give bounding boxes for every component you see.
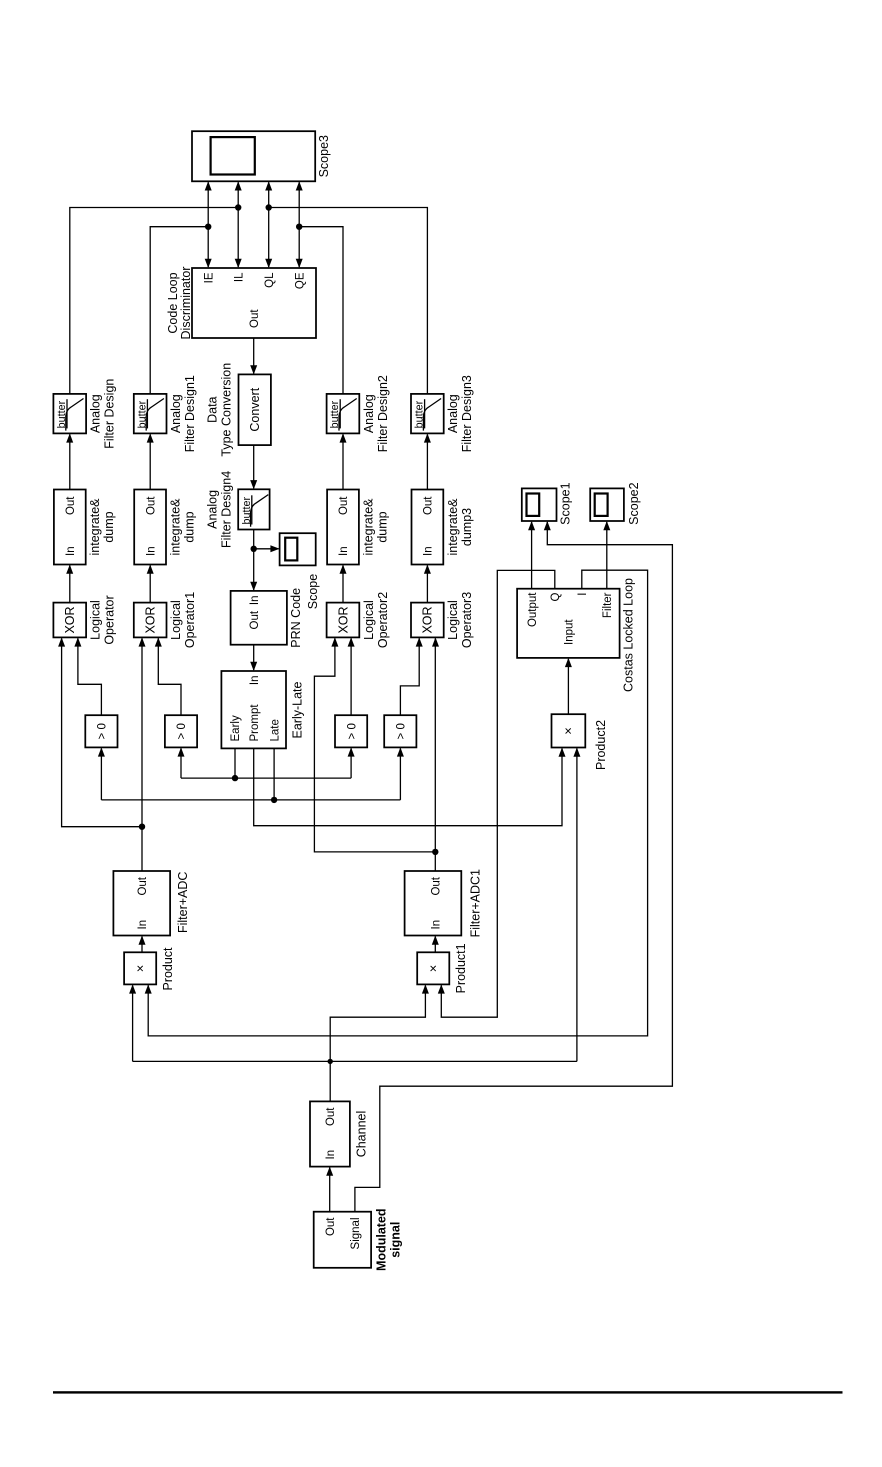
junction dot Filter+ADC net (139, 824, 145, 830)
svg-text:Data: Data (206, 396, 220, 422)
svg-text:> 0: > 0 (97, 723, 109, 739)
block Costas Locked Loop (517, 589, 620, 658)
svg-text:integrate&: integrate& (88, 498, 102, 556)
junction dot on QL line (266, 204, 272, 210)
svg-text:dump3: dump3 (460, 508, 474, 546)
wire Early net trunk (181, 777, 351, 779)
svg-text:Input: Input (564, 619, 576, 645)
block Product2 (x) (552, 714, 586, 747)
wire Filter+ADC net branch -> XOR A input 1 (62, 638, 142, 826)
svg-text:XOR: XOR (421, 606, 435, 633)
block Product1 (x) (417, 952, 449, 984)
svg-text:Late: Late (269, 719, 281, 741)
wire integrate&dump A Out -> butter In (69, 434, 71, 489)
wire XOR C out -> integrate&dump In (342, 566, 344, 603)
svg-text:Out: Out (249, 610, 261, 629)
svg-text:In: In (249, 596, 261, 606)
svg-text:Channel: Channel (355, 1111, 369, 1158)
svg-text:Filter Design3: Filter Design3 (460, 375, 474, 452)
block integrate&dump C (327, 490, 359, 565)
wire >0 A out -> XOR A input 2 (78, 638, 102, 715)
block Filter+ADC1 (405, 871, 462, 936)
wire IE net: discriminator input and Scope3 input (207, 182, 209, 267)
junction dot on IL line (235, 204, 241, 210)
svg-text:Operator2: Operator2 (376, 592, 390, 648)
svg-text:×: × (132, 965, 147, 973)
block Analog Filter Design2 (butter) (327, 394, 360, 434)
wire PRN Code Out -> Early-Late In (253, 645, 255, 670)
block Analog Filter Design4 (butter) (238, 489, 269, 529)
svg-text:Analog: Analog (362, 394, 376, 433)
wire Costas Q -> Product1 input 2 (441, 570, 555, 1017)
wire Channel net branch trunk (133, 1060, 577, 1062)
wire Late net trunk (101, 799, 400, 801)
wire XOR A out -> integrate&dump In (69, 566, 71, 603)
block Analog Filter Design1 (butter) (134, 394, 167, 434)
svg-text:Scope1: Scope1 (559, 482, 573, 524)
svg-text:Filter+ADC: Filter+ADC (176, 872, 190, 933)
junction dot Filter+ADC1 net (432, 849, 438, 855)
svg-text:XOR: XOR (336, 606, 350, 633)
svg-text:IE: IE (203, 272, 215, 283)
svg-text:Signal: Signal (350, 1218, 362, 1250)
block Code Loop Discriminator (192, 268, 316, 338)
footer rule (53, 1391, 843, 1393)
svg-text:Out: Out (423, 496, 435, 515)
svg-text:dump: dump (102, 511, 116, 542)
svg-text:Product: Product (161, 947, 175, 991)
block integrate&dump A (54, 490, 86, 565)
svg-text:integrate&: integrate& (169, 498, 183, 556)
svg-text:XOR: XOR (144, 606, 158, 633)
svg-text:In: In (431, 920, 443, 930)
block compare >0 (C) (335, 715, 367, 747)
svg-text:Out: Out (249, 309, 261, 328)
svg-text:XOR: XOR (63, 606, 77, 633)
svg-text:Scope3: Scope3 (317, 135, 331, 177)
svg-text:dump: dump (376, 511, 390, 542)
svg-text:Output: Output (527, 592, 539, 627)
block small Scope (PRN code scope) (280, 533, 316, 565)
wire Analog Filter Design1 out -> IE junction (150, 227, 208, 394)
svg-text:Scope2: Scope2 (627, 482, 641, 524)
junction dot Early net (232, 775, 238, 781)
wire Analog Filter Design2 out -> QE junction (299, 227, 343, 394)
wire Convert -> Analog Filter Design4 (253, 445, 255, 488)
wire Filter+ADC1 net branch -> XOR C input 1 (314, 638, 435, 852)
wire Late port -> junction (273, 748, 275, 800)
wire Filter+ADC Out trunk -> XOR B input 1 (141, 638, 143, 871)
svg-text:Product2: Product2 (594, 720, 608, 770)
block compare >0 (A) (85, 715, 117, 747)
block Product (x) (124, 952, 156, 984)
wire integrate&dump B Out -> butter In (149, 434, 151, 489)
block Scope2 (590, 488, 624, 521)
svg-text:×: × (426, 965, 441, 973)
svg-text:dump: dump (183, 511, 197, 542)
svg-text:Out: Out (431, 876, 443, 895)
svg-text:Out: Out (137, 876, 149, 895)
svg-text:In: In (249, 676, 261, 686)
block XOR Logical Operator2 (327, 603, 360, 638)
block XOR Logical Operator3 (411, 603, 444, 638)
wire Filter+ADC1 Out trunk -> XOR D input 2 (434, 638, 436, 871)
wire integrate&dump D Out -> butter In (426, 434, 428, 489)
svg-text:Logical: Logical (446, 600, 460, 640)
wire Costas Output -> Scope1 input 1 (531, 522, 533, 589)
svg-text:QE: QE (294, 272, 306, 289)
svg-text:I: I (577, 593, 589, 596)
wire Modulated signal Out -> Channel In (329, 1168, 331, 1212)
wire IL net: discriminator input and Scope3 input (237, 182, 239, 267)
wire integrate&dump C Out -> butter In (342, 434, 344, 489)
wire Costas I -> Product input 2 (148, 570, 647, 1036)
wire Late net -> >0 D input (399, 748, 401, 800)
junction dot on IE line (205, 223, 211, 229)
svg-text:Filter Design2: Filter Design2 (376, 375, 390, 452)
svg-text:Filter: Filter (602, 592, 614, 618)
svg-text:Early: Early (230, 715, 242, 741)
junction dot Late net (271, 797, 277, 803)
svg-text:Filter Design: Filter Design (103, 379, 117, 449)
wire Analog Filter Design out -> IL junction (70, 208, 238, 394)
junction dot on QE line (296, 223, 302, 229)
svg-text:Type Conversion: Type Conversion (220, 363, 234, 457)
wire QE net: discriminator input and Scope3 input (298, 182, 300, 267)
block PRN Code (231, 591, 287, 645)
svg-text:Discriminator: Discriminator (179, 267, 193, 340)
wire Channel Out -> Product1 input 1 (330, 985, 425, 1101)
svg-text:In: In (423, 546, 435, 556)
svg-text:Q: Q (550, 592, 562, 601)
svg-text:Out: Out (338, 496, 350, 515)
svg-text:Out: Out (325, 1107, 337, 1126)
svg-text:Out: Out (325, 1217, 337, 1236)
svg-text:Logical: Logical (89, 600, 103, 640)
svg-text:Convert: Convert (248, 387, 262, 431)
block Filter+ADC (113, 871, 170, 936)
wire >0 B out -> XOR B input 2 (158, 638, 181, 715)
block compare >0 (B) (165, 715, 197, 747)
svg-text:Analog: Analog (169, 394, 183, 433)
svg-text:Analog: Analog (446, 394, 460, 433)
svg-text:signal: signal (389, 1222, 403, 1258)
svg-text:Filter Design4: Filter Design4 (220, 471, 234, 548)
block integrate&dump B (134, 490, 166, 565)
whole diagram rotated 90deg CCW (landscape figure on portrait page) (53, 131, 672, 1271)
svg-text:Out: Out (145, 496, 157, 515)
block XOR Logical Operator (53, 603, 86, 638)
svg-text:Logical: Logical (169, 600, 183, 640)
wire Channel net -> Product2 input 2 (576, 749, 578, 1062)
wire Channel net -> Product input 1 (132, 985, 134, 1061)
wire XOR B out -> integrate&dump In (149, 566, 151, 603)
wire Early net -> >0 B input (180, 748, 182, 778)
svg-text:Logical: Logical (362, 600, 376, 640)
svg-text:> 0: > 0 (176, 723, 188, 739)
wire branch junction -> small Scope input (254, 548, 279, 550)
svg-text:integrate&: integrate& (446, 498, 460, 556)
svg-text:Costas Locked Loop: Costas Locked Loop (622, 578, 636, 692)
block XOR Logical Operator1 (134, 603, 167, 638)
wire Product2 out -> Costas Input (567, 659, 569, 714)
block Data Type Conversion (Convert) (239, 374, 271, 445)
svg-text:In: In (145, 546, 157, 556)
svg-text:Scope: Scope (306, 574, 320, 609)
svg-text:Filter+ADC1: Filter+ADC1 (469, 869, 483, 937)
svg-text:IL: IL (233, 272, 245, 282)
svg-text:Filter Design1: Filter Design1 (183, 375, 197, 452)
svg-text:QL: QL (264, 272, 276, 288)
wire Modulated signal Signal port -> Scope1 input 2 (355, 522, 673, 1212)
block Channel (310, 1101, 350, 1166)
svg-text:Prompt: Prompt (249, 704, 261, 742)
svg-text:Analog: Analog (206, 490, 220, 529)
wire Analog Filter Design4 -> PRN Code In (253, 530, 255, 590)
svg-text:In: In (65, 546, 77, 556)
svg-text:×: × (561, 727, 576, 735)
block Modulated signal source (314, 1212, 371, 1268)
wire Discriminator Out -> Convert (253, 338, 255, 373)
wire Costas Filter -> Scope2 input (606, 522, 608, 589)
svg-text:Operator: Operator (103, 595, 117, 644)
block integrate&dump D (412, 490, 444, 565)
wire Late net -> >0 A input (100, 748, 102, 800)
block Scope3 (192, 131, 315, 181)
wire Early net -> >0 C input (350, 748, 352, 778)
svg-text:In: In (137, 920, 149, 930)
block Early-Late (221, 671, 286, 748)
wire Analog Filter Design3 out -> QL junction (269, 208, 428, 394)
wire >0 D out -> XOR D input 1 (400, 638, 419, 715)
svg-text:In: In (325, 1150, 337, 1160)
block Analog Filter Design3 (butter) (411, 394, 444, 434)
junction dot on feedback line to small Scope (251, 546, 257, 552)
block Analog Filter Design (butter) (53, 394, 86, 434)
svg-text:PRN Code: PRN Code (289, 588, 303, 648)
svg-text:In: In (338, 546, 350, 556)
wire >0 C out -> XOR C input 2 (350, 638, 352, 715)
svg-text:Modulated: Modulated (374, 1208, 388, 1271)
block Scope1 (522, 488, 557, 521)
block compare >0 (D) (384, 715, 416, 747)
svg-text:Operator1: Operator1 (183, 592, 197, 648)
wire Product out -> Filter+ADC In (141, 937, 143, 953)
wire Early port -> junction (234, 748, 236, 778)
svg-text:Operator3: Operator3 (460, 592, 474, 648)
svg-text:Analog: Analog (89, 394, 103, 433)
wire XOR D out -> integrate&dump In (426, 566, 428, 603)
svg-text:Early-Late: Early-Late (290, 681, 304, 738)
svg-text:> 0: > 0 (346, 723, 358, 739)
svg-text:Out: Out (65, 496, 77, 515)
wire Product1 out -> Filter+ADC1 In (434, 937, 436, 953)
junction dot Channel net (328, 1059, 333, 1064)
wire Prompt port -> Product2 input 1 (254, 748, 562, 825)
svg-text:integrate&: integrate& (362, 498, 376, 556)
svg-text:> 0: > 0 (396, 723, 408, 739)
wire QL net: discriminator input and Scope3 input (268, 182, 270, 267)
svg-text:Product1: Product1 (454, 943, 468, 993)
